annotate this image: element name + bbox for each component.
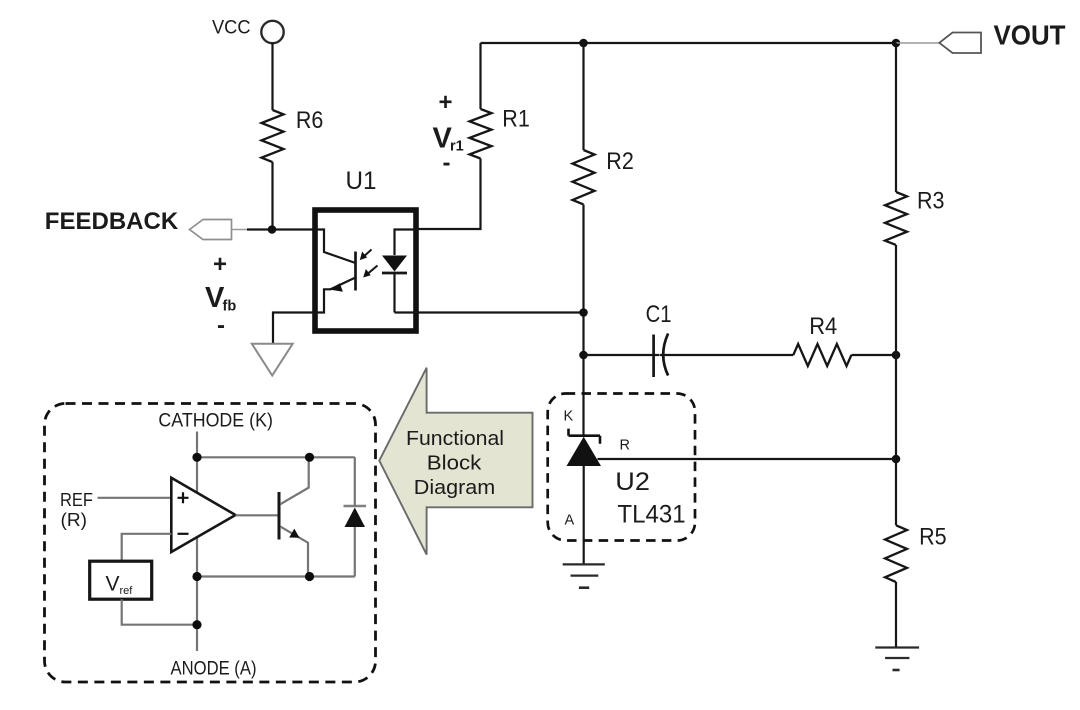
label R3 — [917, 188, 945, 215]
label + Vfb - — [205, 251, 236, 339]
svg-text:V: V — [106, 573, 120, 596]
svg-text:R3: R3 — [917, 188, 945, 215]
resistor R3 — [885, 192, 907, 245]
svg-text:C1: C1 — [646, 301, 672, 328]
junction node anode/bottom rail — [192, 572, 201, 581]
svg-text:TL431: TL431 — [617, 501, 685, 529]
label C1 — [646, 301, 672, 328]
wire FEEDBACK to U1 — [247, 228, 313, 230]
wire U1 top-right pin to R1 — [419, 159, 481, 230]
label (R) — [61, 509, 88, 530]
TL431 diode triangle U2 — [567, 437, 602, 466]
label + Vr1 - — [433, 89, 464, 177]
functional block diagram pointer arrow — [379, 368, 532, 555]
svg-text:+: + — [213, 251, 227, 278]
junction node feedback/R6 — [268, 225, 277, 234]
wire node to C1 — [584, 354, 660, 356]
VCC terminal — [261, 21, 283, 43]
pin label K — [564, 409, 574, 425]
svg-text:REF: REF — [60, 489, 93, 510]
svg-text:R: R — [620, 438, 630, 454]
U1 phototransistor — [313, 230, 356, 313]
junction node C1/R2 column — [579, 351, 588, 360]
label U1 — [346, 167, 377, 195]
svg-text:R6: R6 — [296, 107, 324, 134]
junction node opto/R2 column — [579, 308, 588, 317]
wire Vref to anode stem — [122, 599, 197, 625]
wire top rail to R2 — [582, 43, 584, 150]
label R6 — [296, 107, 324, 134]
U2 TL431 dashed outline — [548, 394, 695, 541]
wire TL431 anode down — [583, 466, 585, 564]
label FEEDBACK — [45, 208, 179, 235]
wire R2 down to TL431 cathode — [582, 205, 584, 437]
transistor Q1 — [279, 457, 309, 576]
wire R pin to R3 column — [598, 458, 897, 460]
capacitor C1 — [654, 334, 669, 378]
wire top rail (block) — [197, 456, 355, 458]
svg-text:-: - — [443, 150, 451, 177]
label TL431 — [617, 501, 685, 529]
svg-text:FEEDBACK: FEEDBACK — [45, 208, 179, 235]
resistor R2 — [573, 150, 595, 204]
svg-text:CATHODE (K): CATHODE (K) — [158, 410, 273, 432]
wire REF input — [98, 497, 172, 499]
wire R1 to top rail — [479, 43, 481, 109]
U1 light arrows — [360, 250, 378, 278]
wire C1 to R4 — [660, 354, 793, 356]
svg-text:VCC: VCC — [212, 18, 251, 39]
label R2 — [606, 148, 634, 175]
wire R5 to ground — [895, 582, 897, 648]
svg-text:U1: U1 — [346, 167, 377, 195]
svg-text:K: K — [564, 409, 574, 425]
op-amp U3 — [171, 478, 235, 552]
resistor R6 — [262, 110, 284, 162]
label ANODE (A) — [171, 658, 257, 680]
resistor R5 — [885, 525, 907, 582]
label REF — [60, 489, 93, 510]
label U2 — [615, 468, 650, 496]
junction node top rail / R2 — [579, 39, 588, 48]
junction node top rail / R3 — [892, 39, 901, 48]
label CATHODE (K) — [158, 410, 273, 432]
wire R4 to R3 column — [851, 354, 896, 356]
wire U1 bottom-right pin to R2 column — [419, 311, 584, 313]
svg-text:Diagram: Diagram — [414, 476, 496, 499]
wire R3 down to R5 — [895, 245, 897, 525]
optocoupler U1 box — [315, 210, 416, 331]
wire R6 to feedback node — [271, 162, 273, 230]
svg-text:(R): (R) — [61, 509, 88, 530]
Vref box — [90, 561, 152, 599]
svg-text:+: + — [438, 89, 452, 116]
svg-text:A: A — [565, 513, 575, 529]
wire U1 pin (bottom-left) to ground — [273, 313, 313, 344]
svg-text:R2: R2 — [606, 148, 634, 175]
ground (signal) under U1 — [252, 344, 293, 376]
FEEDBACK connector tag — [190, 220, 250, 240]
svg-text:R5: R5 — [919, 524, 947, 551]
resistor R4 — [793, 344, 851, 366]
net cathode stem — [196, 432, 198, 652]
functional block diagram dashed box — [45, 404, 376, 683]
label VOUT — [994, 20, 1066, 51]
svg-text:R4: R4 — [809, 313, 837, 340]
wire top rail to R3 — [895, 43, 897, 192]
junction node emitter/bottom rail — [305, 572, 314, 581]
U1 LED — [382, 230, 419, 313]
resistor R1 — [470, 109, 492, 159]
junction node cathode/rail — [192, 453, 201, 462]
pin label A — [565, 513, 575, 529]
pin label R — [620, 438, 630, 454]
diode D1 (block) — [344, 457, 367, 576]
junction node Vref return — [192, 620, 201, 629]
ground under R5 — [875, 648, 919, 671]
svg-text:Block: Block — [427, 452, 482, 475]
wire inverting input to Vref — [122, 534, 172, 561]
wire VCC to R6 — [271, 43, 273, 110]
wire bottom rail (block) — [197, 575, 355, 577]
svg-text:-: - — [217, 312, 225, 339]
svg-text:U2: U2 — [615, 468, 650, 496]
label R5 — [919, 524, 947, 551]
VOUT connector tag — [896, 33, 981, 54]
wire top rail — [481, 42, 897, 44]
junction node collector/rail — [305, 453, 314, 462]
svg-text:r1: r1 — [450, 139, 464, 155]
ground under U2 — [563, 564, 605, 587]
svg-text:ANODE (A): ANODE (A) — [171, 658, 257, 680]
label VCC — [212, 18, 251, 39]
label R4 — [809, 313, 837, 340]
svg-text:VOUT: VOUT — [994, 20, 1066, 51]
junction node R4/R3 column — [892, 351, 901, 360]
svg-text:R1: R1 — [502, 105, 530, 132]
svg-text:Functional: Functional — [406, 427, 504, 450]
TL431 cathode bar — [569, 429, 601, 444]
wire op-amp output to transistor base — [236, 514, 280, 516]
junction node R line / R3 column — [892, 455, 901, 464]
svg-text:ref: ref — [120, 585, 134, 597]
label R1 — [502, 105, 530, 132]
